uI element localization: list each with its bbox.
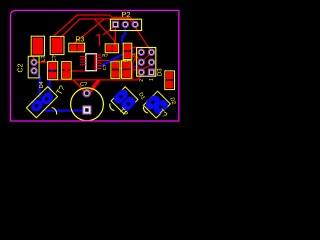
- svg-text:1: 1: [149, 78, 155, 81]
- svg-text:R?: R?: [102, 53, 108, 58]
- svg-text:P2: P2: [121, 10, 130, 19]
- svg-text:C?: C?: [80, 82, 87, 88]
- svg-text:D3: D3: [157, 68, 163, 76]
- svg-text:R3: R3: [75, 37, 84, 44]
- svg-text:L?: L?: [41, 56, 47, 62]
- svg-text:C2: C2: [17, 63, 24, 72]
- svg-text:D4: D4: [39, 81, 45, 88]
- svg-text:C?: C?: [102, 64, 107, 70]
- svg-text:2: 2: [139, 79, 145, 82]
- svg-text:C?: C?: [123, 58, 129, 63]
